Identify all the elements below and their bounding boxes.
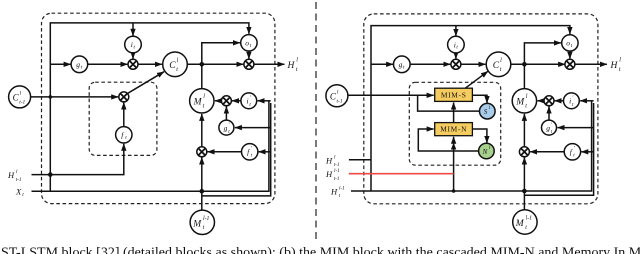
- mult2 output: [244, 59, 254, 69]
- gate f_t: [116, 127, 132, 143]
- wire: bus to g_t: [50, 63, 70, 65]
- svg-text:X: X: [15, 187, 22, 197]
- mult4 i'*g' (right): [544, 96, 554, 106]
- cell C_t^l (right): [486, 52, 511, 77]
- wire: i_t' to mult4 (right): [555, 100, 564, 102]
- svg-text:l-1: l-1: [339, 185, 345, 191]
- wire: X_t row and right riser: [32, 101, 269, 191]
- wire: input bus + top line into o_t (right): [371, 26, 570, 191]
- gate i_t' (right): [564, 93, 580, 109]
- module MIM-S: [435, 88, 473, 101]
- wire: bus branch to f_t' (right): [581, 151, 593, 153]
- memory S^l: [480, 103, 496, 119]
- wire: mult5 up to M_t (right): [523, 114, 525, 147]
- node: junction riser at H row (right): [452, 189, 456, 193]
- wire: i_t to mult1 (right): [455, 53, 457, 59]
- gate f_t' (right): [564, 144, 580, 160]
- wire: g_t' up to mult4 (right): [548, 107, 550, 121]
- svg-text:l-1: l-1: [526, 216, 533, 222]
- input M_t^l-1 (right): [513, 210, 537, 234]
- gate f_t': [242, 144, 258, 160]
- wire: bus branch to i_t' (right): [580, 100, 593, 102]
- wire: mult1 to C_t: [138, 63, 162, 65]
- svg-text:t-1: t-1: [334, 176, 340, 182]
- wire: junction up to o_t: [202, 43, 240, 65]
- mult2 output (right): [565, 59, 575, 69]
- wire: bus branch to f_t': [259, 151, 271, 153]
- wire: bus to g_t (right): [371, 63, 393, 65]
- separator dashed line between panels: [315, 2, 317, 240]
- wire: C_t-1 into MIM-S: [348, 94, 434, 96]
- svg-text:l: l: [16, 169, 18, 175]
- inner dashed frame (MIM modules box): [409, 82, 500, 165]
- mult5 f'*M (right): [519, 147, 529, 157]
- wire: junction up to o_t (right): [524, 43, 561, 64]
- wire: M_t^l-1 up to mult5 (right): [523, 158, 525, 210]
- mult1 i*g: [128, 59, 138, 69]
- wire: M branch row and outer right riser (right): [524, 103, 593, 195]
- wire: M_t^l-1 up to mult5: [201, 158, 203, 211]
- wire: top line drop into i_t (right): [455, 26, 457, 36]
- svg-text:g: g: [546, 124, 550, 133]
- gate i_t: [125, 36, 142, 53]
- svg-text:M: M: [192, 219, 202, 229]
- wire: f_t' to mult5: [208, 151, 242, 153]
- wire: C_t to mult2 (right): [511, 63, 565, 65]
- wire: o_t down to mult2: [248, 51, 250, 59]
- wire: g_t to mult1 (right): [410, 63, 451, 65]
- labels right panel: [325, 39, 621, 231]
- wire: C_t-1 to mult3: [31, 96, 119, 98]
- svg-text:t-1: t-1: [334, 162, 340, 168]
- wire: bus branch to g_t' (right): [558, 127, 594, 129]
- wire: M_t up to H junction: [201, 64, 203, 88]
- wire: M branch row and outer right riser: [202, 103, 271, 196]
- node: junction H_t-1 on bus: [48, 172, 53, 177]
- wire: M_t up to H junction (right): [523, 64, 525, 88]
- gate g_t (right): [394, 56, 411, 73]
- wire: g_t to mult1: [87, 63, 127, 65]
- wire: mult3 diagonal to C_t: [127, 72, 164, 94]
- svg-text:g: g: [76, 60, 80, 69]
- gate o_t (right): [562, 35, 578, 51]
- outer dashed frame right panel: [364, 14, 598, 204]
- wire: S^l recurrent loop back to MIM-S input: [418, 95, 480, 111]
- input C_t-1^l: [9, 86, 31, 108]
- svg-text:t: t: [619, 67, 621, 73]
- svg-text:l: l: [334, 154, 336, 160]
- svg-text:H: H: [287, 61, 296, 71]
- wire: MIM-N out to N^l: [472, 129, 487, 143]
- svg-text:g: g: [224, 124, 228, 133]
- mult3 forget: [119, 92, 129, 102]
- wire: input bus + top line into o_t: [50, 23, 249, 191]
- wire: H_t^l-1 riser into MIM-N bottom: [453, 137, 455, 191]
- node: junction H/C/M (right): [522, 62, 527, 67]
- wire: g_t' up to mult4: [225, 107, 227, 121]
- node: junction C_t-1 at bus: [49, 95, 53, 99]
- svg-text:H: H: [325, 155, 333, 165]
- svg-text:t: t: [22, 192, 24, 198]
- svg-text:g: g: [399, 60, 403, 69]
- mult1 i*g (right): [451, 59, 461, 69]
- module MIM-N: [435, 123, 473, 136]
- cell C_t^l: [163, 52, 188, 77]
- wire: f_t' to mult5 (right): [530, 151, 564, 153]
- wire: mult4 to M_t: [215, 100, 222, 102]
- svg-text:i: i: [569, 96, 571, 105]
- input M_t^l-1: [190, 210, 214, 234]
- svg-text:t: t: [296, 67, 298, 73]
- mult5 f'*M: [197, 147, 207, 157]
- wire: i_t to mult1: [132, 53, 134, 59]
- memory N^l: [479, 143, 495, 159]
- svg-text:t-1: t-1: [337, 98, 343, 104]
- svg-text:o: o: [566, 39, 570, 48]
- input C_t-1^l (right): [326, 85, 348, 107]
- node: junction M line at H row (right): [522, 189, 527, 194]
- gate o_t: [241, 35, 257, 51]
- wire: o_t down to mult2 (right): [569, 51, 571, 59]
- mult4 i'*g': [221, 96, 231, 106]
- node: junction H/C/M: [200, 62, 205, 67]
- wire: mult4 to M_t (right): [538, 100, 545, 102]
- svg-text:l: l: [619, 58, 621, 64]
- svg-text:H: H: [7, 170, 15, 180]
- svg-text:l-1: l-1: [334, 168, 340, 174]
- wire: bus branch to i_t': [258, 100, 271, 102]
- gate g_t': [219, 120, 234, 135]
- memory M_t^l (right): [512, 89, 536, 113]
- svg-text:M: M: [515, 98, 525, 108]
- svg-text:t: t: [339, 193, 341, 199]
- svg-text:MIM-N: MIM-N: [440, 125, 467, 134]
- svg-text:C: C: [493, 61, 500, 71]
- svg-text:l: l: [296, 58, 298, 64]
- svg-text:i: i: [247, 96, 249, 105]
- svg-text:H: H: [610, 61, 619, 71]
- wire: mult2 out to H_t (right): [575, 63, 607, 65]
- svg-text:ST-LSTM block [32] (detailed b: ST-LSTM block [32] (detailed blocks as s…: [1, 246, 640, 254]
- wire: mult1 to C_t (right): [461, 63, 486, 65]
- node: junction M line at X row: [200, 189, 205, 194]
- wire: N^l recurrent loop back to MIM-N input: [418, 129, 479, 151]
- wire: H_t^l-1 row and right riser: [351, 101, 592, 191]
- svg-text:N: N: [482, 148, 488, 156]
- wire: H_t-1^l into bus: [349, 159, 371, 161]
- inner dashed frame (temporal forget-gate box): [89, 82, 157, 155]
- wire: C_t to mult2: [187, 63, 243, 65]
- wire: bus branch to g_t': [235, 127, 271, 129]
- svg-text:MIM-S: MIM-S: [441, 90, 467, 99]
- mult nodes (circle-cross) left panel: [119, 59, 254, 157]
- svg-text:H: H: [325, 169, 333, 179]
- svg-text:t-1: t-1: [16, 177, 22, 183]
- wire: MIM-N up into MIM-S: [453, 103, 455, 123]
- svg-text:H: H: [330, 186, 338, 196]
- wire: MIM-S out to S^l: [472, 95, 487, 103]
- gate i_t (right): [448, 36, 465, 53]
- svg-text:l-1: l-1: [203, 216, 210, 222]
- svg-text:S: S: [484, 108, 488, 116]
- svg-text:M: M: [193, 98, 203, 108]
- svg-text:o: o: [245, 39, 249, 48]
- wire: mult5 up to M_t: [201, 114, 203, 147]
- labels left panel: [7, 39, 298, 232]
- svg-text:C: C: [169, 61, 176, 71]
- wire: top line drop into i_t: [132, 23, 134, 36]
- wire: f_t up to mult3: [123, 103, 125, 127]
- wire: i_t' to mult4: [232, 100, 241, 102]
- gate g_t' (right): [542, 120, 557, 135]
- memory M_t^l: [190, 89, 214, 113]
- wire: H_t-1 row into f_t: [32, 144, 124, 175]
- arrowhead mid riser: [451, 143, 456, 150]
- wire: H_t-1^l-1 red differencing line: [349, 173, 454, 175]
- mult nodes right panel: [451, 59, 575, 157]
- wire: MIM-S diagonal out to C_t: [465, 71, 488, 88]
- gate i_t': [241, 93, 257, 109]
- outer dashed frame left panel: [42, 13, 275, 203]
- wire: mult2 out to H_t: [254, 63, 285, 65]
- svg-text:t-1: t-1: [19, 99, 25, 105]
- gate g_t: [71, 56, 88, 73]
- svg-text:M: M: [515, 219, 525, 229]
